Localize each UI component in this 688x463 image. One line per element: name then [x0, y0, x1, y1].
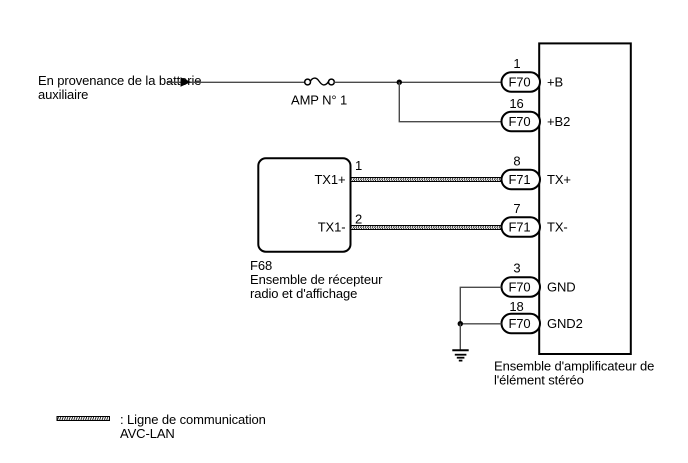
- connector F71 pin 8 (TX+): [502, 154, 571, 190]
- wire: AVC-LAN shielded line TX1- to TX- (hatched): [351, 226, 502, 230]
- svg-text:F71: F71: [508, 172, 530, 187]
- connector F70 pin 3 (GND): [502, 261, 576, 297]
- svg-text:16: 16: [509, 96, 523, 111]
- amplifier box: Ensemble d'amplificateur de l'élément stéréo: [539, 43, 631, 354]
- svg-text:GND2: GND2: [547, 316, 583, 331]
- wire: fuse to pin 1 (+B): [334, 81, 501, 83]
- svg-text:GND: GND: [547, 280, 576, 295]
- svg-text:l'élément stéréo: l'élément stéréo: [494, 373, 584, 388]
- svg-text:7: 7: [513, 201, 520, 216]
- svg-text:Ensemble de récepteur: Ensemble de récepteur: [250, 272, 383, 287]
- svg-text:1: 1: [513, 56, 520, 71]
- arrow: power flow direction: [181, 77, 192, 86]
- svg-text:8: 8: [513, 154, 520, 169]
- svg-text:: Ligne de communication: : Ligne de communication: [120, 412, 266, 427]
- svg-text:radio et d'affichage: radio et d'affichage: [250, 286, 357, 301]
- svg-text:F70: F70: [508, 316, 530, 331]
- connector F70 pin 18 (GND2): [502, 299, 583, 333]
- svg-text:F70: F70: [508, 75, 530, 90]
- wire: GND pin 3 to ground bus: [460, 287, 501, 323]
- box F68: Ensemble de récepteur radio et d'affichage: [258, 158, 350, 251]
- svg-text:TX-: TX-: [547, 220, 568, 235]
- fuse AMP N° 1: [291, 78, 347, 107]
- wire: ground bus to pin 18 (GND2): [460, 323, 501, 325]
- svg-text:F71: F71: [508, 220, 530, 235]
- svg-text:AVC-LAN: AVC-LAN: [120, 426, 175, 441]
- svg-text:TX+: TX+: [547, 172, 571, 187]
- svg-text:TX1-: TX1-: [318, 220, 346, 235]
- label: legend text: [120, 412, 266, 441]
- connector F70 pin 1 (+B): [502, 56, 564, 92]
- connector F71 pin 7 (TX-): [502, 201, 568, 237]
- label: F68 component name: [250, 258, 383, 301]
- connector F70 pin 16 (+B2): [502, 96, 571, 131]
- node: En provenance de la batterie auxiliaire (from auxiliary battery): [38, 73, 201, 102]
- legend: AVC-LAN communication line sample (hatched): [57, 416, 111, 421]
- svg-text:3: 3: [513, 261, 520, 276]
- wire: AVC-LAN shielded line TX1+ to TX+ (hatched): [351, 178, 502, 182]
- svg-text:18: 18: [509, 299, 523, 314]
- svg-text:+B: +B: [547, 75, 563, 90]
- svg-text:F70: F70: [508, 114, 530, 129]
- wire: down to ground symbol: [459, 324, 461, 351]
- junction: ground bus: [458, 321, 463, 326]
- svg-text:En provenance de la batterie: En provenance de la batterie: [38, 73, 201, 88]
- svg-text:TX1+: TX1+: [314, 172, 345, 187]
- svg-text:Ensemble d'amplificateur de: Ensemble d'amplificateur de: [494, 359, 654, 374]
- ground symbol: [452, 350, 468, 360]
- svg-text:+B2: +B2: [547, 114, 570, 129]
- svg-text:AMP N° 1: AMP N° 1: [291, 93, 347, 108]
- wire: battery feed to fuse: [168, 81, 305, 83]
- svg-text:1: 1: [355, 158, 362, 173]
- svg-text:2: 2: [355, 212, 362, 227]
- junction: +B / +B2 branch: [397, 80, 402, 85]
- svg-text:F70: F70: [508, 280, 530, 295]
- wire: branch down to pin 16 (+B2): [399, 82, 501, 122]
- svg-text:auxiliaire: auxiliaire: [38, 87, 88, 102]
- svg-text:F68: F68: [250, 258, 272, 273]
- label: amplifier name: [494, 359, 654, 388]
